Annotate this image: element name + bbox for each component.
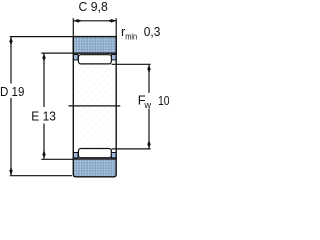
C dimension line: [73, 20, 116, 22]
Fw dimension line upper segment: [148, 65, 150, 93]
needle roller top: [78, 55, 111, 64]
D dimension line lower segment: [10, 98, 12, 175]
E dimension extension line top: [41, 52, 73, 54]
D dimension extension line top: [10, 36, 74, 38]
needle roller bottom: [78, 149, 111, 158]
C dimension extension line right: [115, 18, 117, 36]
section left edge wire: [72, 37, 74, 159]
svg-text:E 13: E 13: [31, 109, 56, 124]
E dimension line lower segment: [43, 124, 45, 159]
top right flange: [111, 55, 116, 60]
Fw arrow up: [147, 65, 151, 72]
E arrow down: [42, 152, 46, 159]
outer ring top section: [73, 37, 116, 54]
svg-text:C 9,8: C 9,8: [79, 0, 108, 14]
svg-text:w: w: [144, 100, 152, 110]
D dimension line upper segment: [10, 37, 12, 84]
E arrow up: [42, 53, 46, 60]
centerline (bearing axis): [68, 105, 120, 107]
shaft bore hatch: [74, 64, 115, 148]
section right edge wire: [115, 37, 117, 159]
bottom right flange: [111, 153, 116, 158]
svg-text:min: min: [125, 32, 137, 42]
C dimension extension line left: [72, 18, 74, 36]
outer ring bottom section: [73, 159, 116, 177]
E dimension line upper segment: [43, 53, 45, 107]
svg-text:10: 10: [158, 93, 170, 108]
Fw tangent/extension line bottom: [112, 148, 151, 150]
svg-text:0,3: 0,3: [144, 24, 161, 39]
top left flange: [73, 55, 78, 60]
svg-text:D 19: D 19: [0, 84, 24, 99]
C arrow right: [109, 19, 116, 23]
Fw arrow down: [147, 142, 151, 149]
E dimension extension line bottom: [41, 158, 73, 160]
C arrow left: [74, 19, 81, 23]
D dimension extension line bottom: [10, 175, 72, 177]
Fw tangent/extension line top: [112, 63, 151, 65]
D arrow down: [9, 169, 13, 176]
D arrow up: [9, 37, 13, 44]
bottom left flange: [73, 153, 78, 158]
Fw dimension line lower segment: [148, 109, 150, 149]
